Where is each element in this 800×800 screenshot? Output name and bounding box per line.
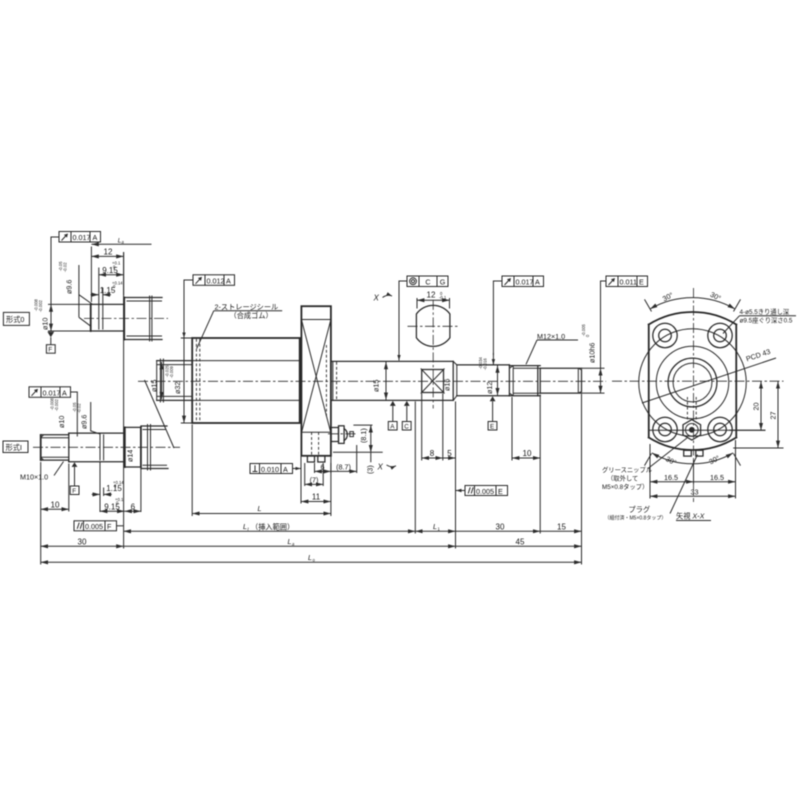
phi12 section [457,364,510,366]
frame dia C G [399,276,448,361]
M10 thread section [40,435,42,460]
dim phi15 right [385,362,387,400]
MAIN ASSEMBLY VIEW [138,275,606,472]
svg-text:A: A [283,465,288,474]
step to journal [68,433,70,462]
bolt hole upper-left [653,323,677,347]
centerline [84,317,168,319]
datum A [390,401,396,406]
dim Lo overall [41,561,582,563]
svg-text:（組付済・M5×0.8タップ）: （組付済・M5×0.8タップ） [605,515,667,522]
dim La [124,545,456,547]
dim 6 plug offset [314,463,316,473]
svg-text:33: 33 [691,487,699,496]
dim phi10h6 [582,367,605,369]
svg-text:X: X [377,463,384,472]
svg-text:-0.005: -0.005 [581,323,586,336]
runout frame 0.017 A (phi12) [493,276,543,365]
BOTTOM DIMENSION CHAINS [41,252,582,565]
dims 8 and 5 [421,394,423,461]
svg-text:-0.008: -0.008 [34,298,39,311]
dim phi12 [497,365,499,395]
svg-text:M5×0.8タップ）: M5×0.8タップ） [602,482,648,491]
collar phi14 [124,427,126,467]
dim 30 right [456,530,541,532]
TYPE-0 SHAFT END VIEW (top-left) [3,232,168,354]
svg-text:E: E [639,278,644,287]
dim (7) plug [304,463,306,486]
grease nipple hex [683,420,701,440]
svg-text:-0.002: -0.002 [54,398,59,411]
svg-text:-0.1: -0.1 [439,295,447,300]
perpendicular frame 0.010 A [250,464,301,474]
svg-text:（合成ゴム）: （合成ゴム） [230,311,273,320]
dim 27 [733,447,783,449]
relief groove [99,434,101,460]
svg-text:6: 6 [131,502,136,511]
svg-text:E: E [490,423,494,430]
left seal dashed [195,339,197,422]
dim Lt insertion range [124,530,416,532]
datum F triangle and box [72,462,78,467]
svg-text:6: 6 [321,462,325,471]
break line between views [145,380,175,448]
bolt hole upper-right [708,323,732,347]
svg-text:ø9.6: ø9.6 [65,280,74,294]
parallel frame 0.005 F [74,521,123,531]
svg-text:11: 11 [312,492,321,501]
svg-text:F: F [107,522,112,531]
journal phi10 [69,432,125,434]
svg-text:-0.02: -0.02 [63,262,68,272]
svg-text:-0.002: -0.002 [38,299,43,312]
svg-text:ø9.5座ぐり深さ0.5: ø9.5座ぐり深さ0.5 [740,316,793,325]
plug hidden hole [311,432,313,455]
svg-text:(8.7): (8.7) [336,462,351,471]
angle dim bottom [652,453,733,464]
runout frame 0.017 A [51,232,101,305]
svg-text:（挿入範囲）: （挿入範囲） [251,522,294,531]
svg-text:L: L [243,522,247,531]
spigot circle [668,358,717,407]
svg-text:F: F [48,347,52,354]
dim 10 thread [511,397,513,461]
svg-text:8: 8 [430,449,435,458]
PCD circle [639,329,747,437]
svg-text:9.15: 9.15 [102,266,118,275]
dim 1.15 [99,462,101,512]
svg-text:L: L [433,522,437,531]
centerline [33,446,180,448]
svg-text:C: C [425,278,430,287]
datum F triangle and box [47,332,54,337]
svg-text:-0.05: -0.05 [58,261,63,271]
ball screw thread [124,297,162,299]
svg-text:矢視 X-X: 矢視 X-X [676,512,706,521]
svg-text:L: L [258,504,262,513]
TYPE-I SHAFT END VIEW (bottom-left) [3,387,180,565]
svg-text:M12×1.0: M12×1.0 [537,332,565,341]
svg-text:10: 10 [523,449,532,458]
svg-text:0.017: 0.017 [73,233,91,242]
svg-text:0.005: 0.005 [85,522,103,531]
RIGHT SHAFT END [422,276,648,549]
wrench flats rotated detail [432,300,434,409]
svg-text:L: L [308,553,312,562]
screw shaft left thread [157,360,192,362]
svg-text:形式0: 形式0 [6,315,24,324]
svg-text:ø16: ø16 [443,379,452,391]
svg-text:20: 20 [752,403,761,411]
svg-text:グリースニップル: グリースニップル [602,465,652,474]
dim 15 [540,530,581,532]
ball nut body [192,338,300,423]
step phi15 to phi12 [452,361,454,400]
svg-text:45: 45 [516,537,525,546]
svg-text:30: 30 [496,522,505,531]
flange outline [648,325,650,438]
dim Lb [91,243,151,245]
svg-text:ø10: ø10 [41,318,50,330]
svg-text:ø12: ø12 [485,382,494,394]
main centerline [138,380,606,382]
svg-text:0.017: 0.017 [516,278,534,287]
dim 9.15 [100,510,125,512]
wrench flat square [422,370,444,393]
line through nipple and lower holes [649,429,766,431]
runout frame 0.012 A on nut [184,275,235,338]
svg-text:-0.008: -0.008 [50,397,55,410]
svg-text:4-ø5.5きり通し深: 4-ø5.5きり通し深 [740,307,790,316]
label PCD 43 [642,358,776,403]
dim (8.7) nipple [356,445,358,473]
dim 1.15 [102,288,104,307]
svg-text:M10×1.0: M10×1.0 [20,473,48,482]
svg-text:0.017: 0.017 [43,388,61,397]
svg-text:ø15: ø15 [150,380,159,392]
journal phi10 [90,304,92,331]
svg-text:-0.02: -0.02 [77,403,82,413]
svg-text:5: 5 [447,449,452,458]
dim (3) [370,452,372,462]
svg-text:プラグ: プラグ [629,505,651,514]
dim 9.15 [98,268,100,307]
dim 30 left [41,545,124,547]
svg-text:(3): (3) [366,465,375,474]
dim (8.1) vertical [353,424,372,426]
svg-text:-0.009: -0.009 [169,365,174,378]
label box Type0 [3,312,29,325]
dim 6 [140,469,142,513]
shaft right of flange [331,360,453,362]
svg-text:ø9.6: ø9.6 [80,415,89,429]
svg-text:ø15: ø15 [372,380,381,392]
dim phi32 nut od [181,337,205,339]
svg-text:-0.05: -0.05 [72,402,77,412]
centerlines [612,380,784,382]
dim phi15 left [161,362,163,399]
dim 12 across flats [416,298,418,309]
svg-text:0.010: 0.010 [261,465,279,474]
svg-text:A: A [62,388,67,397]
bolt hole lower-right [708,417,732,441]
svg-text:(7): (7) [310,475,319,484]
svg-text:ø32: ø32 [173,382,182,394]
end journal phi10h6 [540,367,581,369]
datum E [490,396,496,401]
svg-text:ø14: ø14 [126,450,135,462]
svg-text:ø10h6: ø10h6 [588,343,597,363]
svg-text:F: F [72,488,76,495]
dim L1 [415,530,455,532]
runout frame 0.017 A [29,387,77,437]
svg-text:X: X [373,294,380,303]
label box TypeI [3,441,28,453]
plug tabs bottom [684,450,692,456]
svg-text:E: E [498,487,503,496]
bolt hole lower-left [653,417,677,441]
svg-text:(8.1): (8.1) [359,428,368,443]
dim 11 flange width [301,501,331,503]
M12 thread [508,365,510,396]
svg-text:16.5: 16.5 [710,473,724,482]
bore circle [673,363,712,402]
datum C [404,401,410,406]
svg-text:0.011: 0.011 [620,278,637,287]
svg-text:A: A [226,276,231,285]
parallel frame 0.005 E [456,486,508,496]
relief groove phi9.6 [98,306,100,330]
svg-text:12: 12 [104,248,113,257]
svg-text:A: A [93,233,98,242]
svg-text:0.005: 0.005 [476,487,494,496]
svg-text:A: A [535,278,540,287]
svg-text:27: 27 [769,412,778,420]
svg-text:-0.025: -0.025 [164,364,169,377]
svg-text:ø10: ø10 [57,416,66,428]
ball screw thread right [141,425,167,427]
svg-text:10: 10 [51,500,60,509]
svg-text:-0.016: -0.016 [483,357,488,370]
svg-text:L: L [288,537,292,546]
extension lines [123,252,125,549]
shoulder [123,298,125,340]
plug tab [307,456,314,462]
runout frame 0.011 E (journal) [601,276,648,368]
angle dim top [650,298,735,309]
nut body circle [656,346,729,419]
svg-text:（取外して: （取外して [607,473,638,482]
dim phi10 with datum F [48,303,91,305]
END VIEW X-X [602,288,796,522]
grease nipple side [331,428,339,442]
flange [301,306,331,456]
svg-text:15: 15 [557,522,566,531]
svg-text:-0.034: -0.034 [478,356,483,369]
dim 45 [456,545,582,547]
svg-text:C: C [404,423,409,430]
svg-text:形式Ⅰ: 形式Ⅰ [6,443,23,452]
dim 12 [90,247,92,303]
svg-text:16.5: 16.5 [664,473,678,482]
svg-text:12: 12 [427,290,436,299]
ext and dims 16.5 16.5 33 [649,444,651,499]
dim 10 [40,462,42,565]
dim L nut length [192,513,331,515]
svg-text:0.012: 0.012 [207,276,225,285]
svg-text:G: G [440,278,446,287]
svg-text:30: 30 [78,537,87,546]
dim 20 [730,429,766,431]
